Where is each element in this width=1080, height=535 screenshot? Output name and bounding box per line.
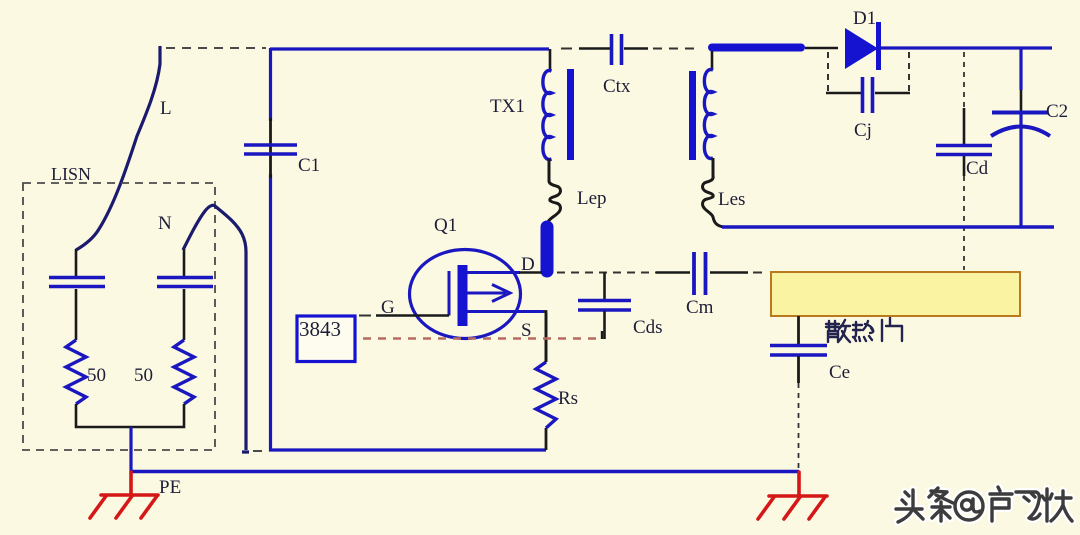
capacitor Cds top lead — [603, 273, 606, 300]
capacitor Cd solid leads — [963, 108, 966, 176]
wire: Cds bottom tick — [601, 331, 603, 339]
inductor: TX1 secondary winding — [704, 70, 713, 159]
wire: source corner down — [543, 312, 546, 363]
LISN dashed box — [23, 183, 215, 450]
capacitor C1 leads — [269, 118, 272, 178]
svg-text:Les: Les — [718, 189, 745, 210]
capacitor Cj plates — [863, 77, 873, 113]
wire: bus black segment before D1 — [805, 47, 838, 50]
capacitor C2 bottom lead — [1019, 114, 1022, 227]
wire: C1 vertical + bottom run to Rs — [271, 48, 547, 450]
svg-text:C1: C1 — [298, 155, 320, 176]
wire: secondary top lead — [711, 51, 714, 70]
svg-text:LISN: LISN — [51, 164, 91, 184]
glyph 片 — [882, 318, 902, 341]
snubber dashed drop (right of Cj) — [908, 52, 910, 92]
svg-text:3843: 3843 — [299, 317, 341, 341]
ground (right, red) — [758, 472, 827, 519]
capacitor C2 plates — [992, 111, 1048, 115]
inductor Lep (black loops) — [548, 159, 560, 222]
svg-text:PE: PE — [159, 477, 181, 498]
thick bus bar (secondary top to D1) — [712, 44, 801, 52]
capacitor C2 top lead — [1019, 48, 1022, 90]
transformer core bar (secondary side) — [689, 71, 696, 160]
capacitor Ce bottom lead — [797, 356, 800, 383]
svg-text:Q1: Q1 — [434, 215, 457, 236]
wire: output bottom rail — [722, 225, 1054, 228]
svg-text:Lep: Lep — [577, 188, 607, 209]
capacitor (LISN left) plates — [49, 278, 105, 287]
wire: Cj branch horizontal — [826, 92, 910, 94]
glyph 散 — [826, 321, 839, 342]
mosfet Q1 gate lead line — [448, 271, 451, 316]
inductor: TX1 primary winding — [543, 71, 552, 160]
mosfet Q1 arrow — [467, 285, 510, 302]
svg-text:D: D — [521, 254, 535, 275]
svg-text:TX1: TX1 — [490, 96, 525, 117]
wire: drain to thick bar — [519, 271, 542, 274]
glyph 散 right part — [838, 320, 850, 342]
wire: red dashed feedback line — [363, 337, 602, 339]
svg-text:D1: D1 — [853, 8, 876, 29]
capacitor (LISN right) plates — [157, 278, 213, 287]
glyph 热 — [853, 321, 873, 341]
capacitor Ctx dash-dot leads — [561, 48, 572, 50]
svg-text:Ctx: Ctx — [603, 76, 631, 97]
label 散热片 (drawn strokes) — [826, 318, 902, 342]
capacitor Cd dashed top lead — [963, 52, 965, 110]
snubber dashed drop (left of Cj) — [827, 52, 829, 92]
capacitor Cds bottom lead — [603, 311, 606, 339]
capacitor Ce top lead — [797, 316, 800, 344]
capacitor Cm plates — [694, 252, 706, 295]
diode D1 — [845, 28, 878, 69]
wire: output rail after D1 — [881, 46, 1052, 49]
svg-text:L: L — [160, 98, 172, 119]
inductor Les (black loops) — [703, 158, 724, 227]
resistor Rs — [536, 362, 556, 428]
wire: LISN center drop to PE — [129, 427, 132, 472]
wire: LISN bottom connector — [76, 404, 184, 427]
capacitor (LISN right) leads — [183, 249, 186, 340]
wire: primary top lead — [549, 49, 552, 71]
svg-text:50: 50 — [87, 365, 106, 386]
thick drain bar — [541, 227, 554, 271]
svg-text:Cd: Cd — [966, 158, 989, 179]
svg-text:Cm: Cm — [686, 297, 714, 318]
transformer core bar (primary side) — [567, 69, 574, 160]
wire: LISN box bottom stray dash — [253, 450, 262, 452]
heatsink box — [771, 272, 1020, 316]
svg-text:Ce: Ce — [829, 362, 850, 383]
capacitor Cd dashed bottom lead to heatsink — [963, 176, 965, 270]
svg-text:50: 50 — [134, 365, 153, 386]
wire: gate black wire — [376, 314, 449, 317]
wire: top-left dashed segment from L input to C1 corner — [166, 47, 266, 49]
svg-text:N: N — [158, 213, 172, 234]
wire: PE rail — [131, 470, 799, 473]
wire: Ce dashed drop to ground — [798, 383, 800, 471]
capacitor Ctx plates — [612, 34, 622, 65]
svg-text:Rs: Rs — [558, 388, 578, 409]
IC 3843 box — [297, 316, 355, 362]
svg-text:C2: C2 — [1046, 101, 1068, 122]
resistor Rs leads — [545, 313, 548, 450]
wire: top rail (C1 corner to TX1 primary) — [270, 47, 549, 50]
capacitor C1 plates — [244, 145, 297, 154]
mosfet Q1 gate bar — [458, 265, 468, 326]
capacitor Cm dashed lead from drain — [557, 272, 657, 274]
capacitor Ce plates — [770, 346, 827, 356]
wire: L input curve — [76, 46, 160, 250]
capacitor (LISN left) leads — [75, 249, 78, 340]
ground PE (left, red) — [90, 472, 158, 518]
resistor 50 (left) — [66, 340, 86, 404]
resistor 50 (right) — [174, 340, 194, 404]
capacitor Cds plates — [578, 301, 631, 311]
capacitor Cd plates — [936, 146, 992, 155]
wire: gate dash from 3843 — [359, 315, 371, 317]
mosfet Q1 source line — [467, 310, 543, 313]
op-amp/mosfet Q1 body circle — [410, 250, 521, 339]
svg-text:Cds: Cds — [633, 317, 663, 338]
capacitor Cm solid leads — [656, 271, 748, 273]
mosfet Q1 drain line — [467, 271, 520, 274]
svg-text:Cj: Cj — [854, 120, 872, 141]
wire: N input curve — [183, 205, 249, 452]
